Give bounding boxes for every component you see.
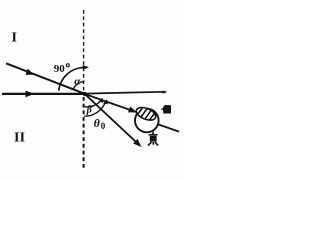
90-degree arc bbox=[59, 68, 85, 91]
normal (dashed, lower) bbox=[83, 97, 85, 170]
normal (dashed, upper) bbox=[83, 10, 85, 91]
wire surface left segment bbox=[2, 93, 85, 95]
node O (interface intersection point) bbox=[83, 92, 87, 96]
arrow on incident ray bbox=[25, 69, 34, 75]
incident ray bbox=[6, 63, 85, 94]
svg-text:II: II bbox=[14, 131, 25, 146]
svg-text:I: I bbox=[12, 31, 17, 46]
arrow on ray A bbox=[128, 107, 137, 113]
arrow at right end of surface bbox=[163, 91, 168, 94]
refracted ray A (shallow) bbox=[85, 94, 137, 112]
theta0 arc bbox=[84, 102, 105, 117]
arrow on theta0 arc bbox=[103, 99, 108, 104]
arrow on beta arc bbox=[99, 98, 104, 103]
svg-text:0: 0 bbox=[101, 121, 106, 131]
svg-text:β: β bbox=[86, 105, 93, 116]
eye circle bbox=[135, 109, 159, 133]
eye lens ellipse bbox=[135, 105, 158, 123]
ray A continuation beyond eye bbox=[157, 124, 179, 132]
CJK-like character below eye bbox=[148, 132, 158, 146]
arrow on 90-degree arc bbox=[83, 65, 90, 70]
wire surface right segment bbox=[85, 92, 166, 94]
refracted ray B (steep) bbox=[85, 94, 140, 145]
svg-text:α: α bbox=[74, 76, 81, 88]
svg-text:90: 90 bbox=[54, 63, 66, 75]
lens hatching bbox=[138, 107, 143, 115]
beta arc bbox=[84, 100, 101, 107]
arrow on surface ray bbox=[26, 91, 35, 98]
arrow on ray B bbox=[133, 139, 141, 147]
small black glyph blob top-right of eye bbox=[161, 105, 171, 114]
svg-text:θ: θ bbox=[94, 116, 101, 130]
alpha arc bbox=[73, 82, 84, 90]
